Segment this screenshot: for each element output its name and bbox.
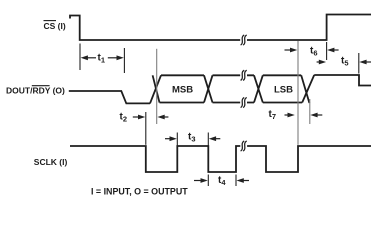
node gray reference line at last SCLK rising edge	[297, 41, 299, 145]
wire SCLK waveform left portion	[70, 146, 241, 172]
node gray tick right of LSB exit	[309, 99, 311, 124]
node tick at DOUT fall (t1 right)	[123, 48, 125, 73]
wire MSB bubble bottom edge	[160, 102, 205, 104]
t3 arrow pointing right	[170, 136, 177, 141]
t2 arrow pointing right at SCLK edge tick	[138, 115, 145, 120]
node gray reference line at first DOUT transition	[156, 49, 158, 124]
svg-text:CS (I): CS (I)	[44, 21, 66, 31]
t6 arrow pointing left at CS rise tick	[327, 48, 334, 53]
wire LSB exit falling slant	[301, 75, 309, 103]
node tick above SCLK rising edge (t3 left)	[176, 133, 178, 146]
node tick above SCLK falling edge (t3 right)	[207, 133, 209, 146]
wire SCLK right of break: high, low pulse, high to edge	[247, 146, 371, 172]
svg-text:MSB: MSB	[172, 84, 193, 95]
t5 arrow pointing left at DOUT release tick	[359, 60, 366, 65]
wire DOUT high then step down to tri-state level	[314, 75, 371, 86]
break mark on CS low line	[240, 34, 247, 46]
break mark on SCLK high line	[240, 140, 247, 152]
t2 arrow pointing left at gray line	[157, 115, 164, 120]
wire CS low right of break, rise, high to edge	[247, 15, 371, 41]
svg-text:DOUT/RDY (O): DOUT/RDY (O)	[6, 86, 65, 96]
t4 arrow pointing right	[201, 178, 208, 183]
node tick below CS rising edge (t6 right / t5 left)	[326, 42, 328, 60]
wire LSB bubble top edge	[263, 74, 301, 76]
wire middle bubble bottom edge with break gap	[213, 102, 255, 104]
node tick above first SCLK falling edge (t2 left)	[145, 112, 147, 145]
t5 arrow pointing right at CS rise tick	[319, 60, 326, 65]
t1 arrow right (points right at tick)	[117, 55, 124, 60]
wire LSB bubble bottom edge	[263, 102, 302, 104]
node tick at DOUT release (t5 right)	[358, 53, 360, 74]
svg-text:LSB: LSB	[274, 84, 293, 95]
wire DOUT entry X rising slant	[150, 75, 161, 103]
svg-text:I = INPUT, O = OUTPUT: I = INPUT, O = OUTPUT	[91, 186, 188, 196]
node tick below SCLK falling edge (t4 left)	[207, 175, 209, 187]
wire middle bubble top edge with break gap	[213, 74, 255, 76]
break mark on middle bubble top edge	[240, 69, 247, 81]
wire LSB exit rising slant to high	[302, 75, 314, 103]
wire CS waveform left: high then fall to low	[70, 16, 240, 41]
break mark on middle bubble bottom edge	[240, 97, 247, 109]
wire MSB bubble top edge	[161, 74, 204, 76]
t1 arrow left (points left at tick)	[81, 55, 88, 60]
wire X transition middle bubble to LSB	[254, 75, 263, 102]
node tick below SCLK rising edge (t4 right)	[235, 175, 237, 187]
t4 arrow pointing left	[237, 178, 244, 183]
svg-text:SCLK (I): SCLK (I)	[34, 157, 68, 167]
t3 arrow pointing left	[209, 136, 216, 141]
node tick below CS falling edge (t1 left)	[79, 44, 81, 71]
t6 arrow pointing right at gray line	[290, 48, 297, 53]
wire DOUT initial high and dip low	[69, 91, 150, 103]
wire DOUT entry X falling slant	[153, 75, 160, 102]
t7 arrow pointing right at gray line	[288, 113, 295, 118]
wire X transition MSB to middle bubble	[204, 75, 213, 102]
t7 arrow pointing left at gray tick	[310, 113, 317, 118]
